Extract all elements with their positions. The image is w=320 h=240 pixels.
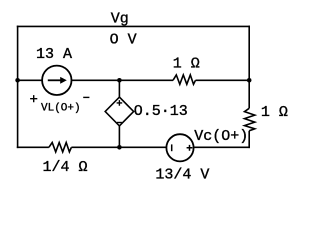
wire: right vertical upper <box>248 26 250 81</box>
wire: source row middle <box>72 79 174 81</box>
dependent source minus sign <box>117 122 122 124</box>
current source I1 arrow <box>48 79 61 81</box>
wire: right vertical lower <box>248 131 250 148</box>
svg-text:13 A: 13 A <box>36 46 72 63</box>
svg-text:Vg: Vg <box>111 11 129 28</box>
junction node dot center <box>117 78 122 83</box>
label plus of VL <box>30 95 37 102</box>
wire: diamond top stub <box>118 80 120 97</box>
wire: source row left stub <box>18 79 43 81</box>
svg-text:O.5·13: O.5·13 <box>134 103 188 120</box>
current source I1 circle <box>42 66 71 95</box>
svg-text:1 Ω: 1 Ω <box>173 56 200 73</box>
svg-text:O V: O V <box>110 32 137 49</box>
voltage source Vc plus sign <box>187 145 193 151</box>
wire: top horizontal net Vg <box>17 25 250 27</box>
wire: bottom left segment <box>17 146 49 148</box>
junction node dot left <box>15 78 20 83</box>
svg-text:1/4 Ω: 1/4 Ω <box>43 159 88 176</box>
wire: bottom middle segment <box>71 146 166 148</box>
wire: source row right <box>196 79 250 81</box>
junction node dot right <box>247 78 252 83</box>
wire: bottom right segment <box>194 146 250 148</box>
dependent source plus sign <box>117 100 123 106</box>
dependent source D1 diamond <box>105 97 133 126</box>
label minus of VL <box>83 96 89 98</box>
wire: left vertical <box>17 26 19 149</box>
resistor R3 1 ohm right zigzag <box>245 108 255 131</box>
svg-text:VL(O+): VL(O+) <box>41 103 81 115</box>
wire: diamond bottom stub <box>118 126 120 147</box>
junction node dot bottom <box>117 145 122 150</box>
svg-text:1 Ω: 1 Ω <box>261 104 288 121</box>
wire: right vertical to resistor <box>248 80 250 108</box>
resistor R2 1/4 ohm zigzag <box>49 143 72 152</box>
voltage source Vc circle <box>166 134 193 161</box>
voltage source Vc minus bar <box>171 144 173 151</box>
svg-text:13/4 V: 13/4 V <box>155 166 209 183</box>
svg-text:Vc(O+): Vc(O+) <box>194 128 248 145</box>
resistor R1 1 ohm top zigzag <box>173 75 196 84</box>
current source I1 arrowhead <box>60 77 67 84</box>
